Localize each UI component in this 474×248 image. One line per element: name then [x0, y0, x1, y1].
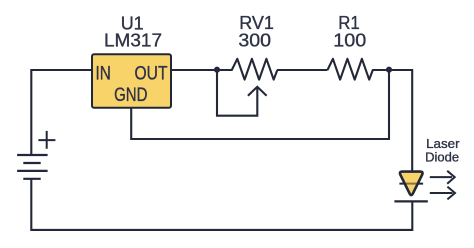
wire OUT pin of U1 to node A	[171, 69, 217, 71]
bottom wire battery negative to laser diode cathode	[31, 179, 412, 230]
wire RV1 to R1	[277, 69, 328, 71]
laser diode horizontal line full width	[399, 183, 423, 185]
battery BT1 plates	[17, 155, 47, 179]
resistor R1 zigzag	[328, 59, 390, 80]
battery short plate 1	[23, 162, 40, 164]
battery plus sign	[38, 131, 55, 149]
laser light arrow 2	[430, 187, 455, 200]
battery short plate 2	[23, 178, 40, 180]
laser diode D1 triangle outline	[400, 172, 423, 195]
laser diode cathode bar	[394, 200, 427, 202]
laser diode inner line over fill	[404, 183, 418, 185]
potentiometer RV1 zigzag	[217, 59, 277, 80]
laser light arrow 1	[430, 171, 455, 184]
svg-text:100: 100	[333, 30, 366, 50]
svg-text:GND: GND	[114, 85, 147, 106]
node B junction dot	[386, 67, 392, 73]
svg-text:LM317: LM317	[104, 31, 162, 51]
GND wire from U1 to node B	[131, 70, 389, 139]
svg-text:OUT: OUT	[135, 63, 168, 84]
wire node B to laser diode anode	[389, 70, 412, 171]
RV1 wiper arrowhead	[248, 87, 267, 96]
RV1 wiper wire	[217, 70, 257, 116]
battery long plate 1	[17, 154, 47, 156]
laser diode D1 triangle fill	[400, 172, 423, 195]
svg-text:IN: IN	[96, 63, 111, 84]
node A junction dot	[214, 67, 220, 73]
wire battery positive to IN pin of U1	[31, 70, 92, 155]
svg-text:300: 300	[238, 30, 271, 50]
battery long plate 2	[17, 170, 47, 172]
regulator U1 LM317 body	[92, 54, 171, 107]
svg-text:Diode: Diode	[425, 150, 459, 165]
